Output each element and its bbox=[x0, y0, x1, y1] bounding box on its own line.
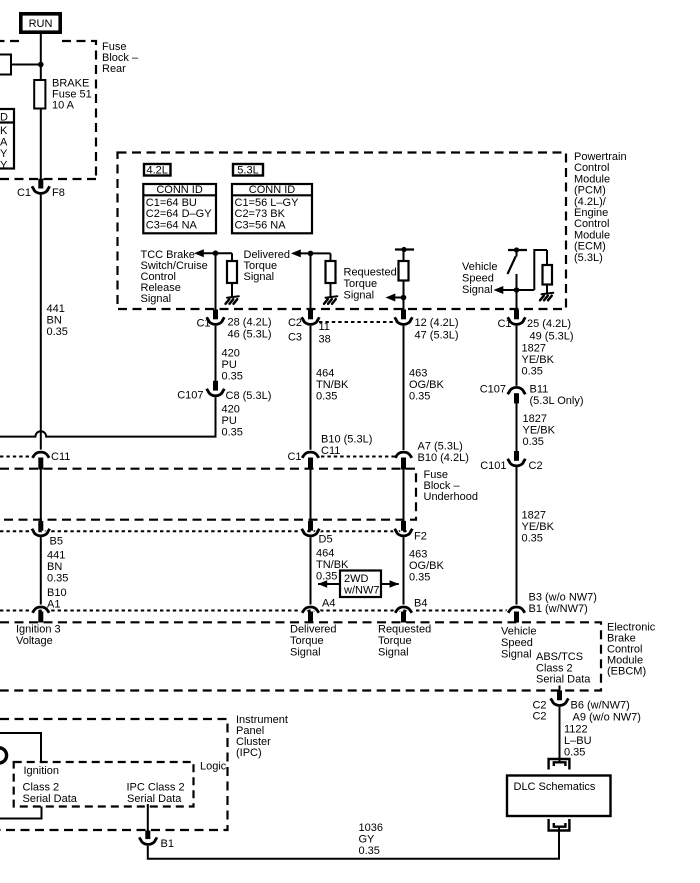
junction node bbox=[38, 62, 44, 68]
dotted connector face under fuse block bbox=[0, 530, 410, 532]
svg-text:Signal: Signal bbox=[501, 649, 532, 661]
svg-text:C3=64 NA: C3=64 NA bbox=[146, 220, 198, 232]
svg-text:C8 (5.3L): C8 (5.3L) bbox=[226, 390, 272, 402]
label 1122 L-BU 0.35 bbox=[564, 723, 592, 758]
wire 463 lower bbox=[403, 537, 405, 605]
svg-text:Voltage: Voltage bbox=[16, 635, 53, 647]
wire 1827 mid bbox=[516, 403, 518, 452]
ignition feed wire into logic bbox=[0, 733, 41, 762]
svg-text:C2: C2 bbox=[532, 699, 546, 711]
svg-text:C1: C1 bbox=[287, 451, 301, 463]
svg-text:Torque: Torque bbox=[344, 278, 378, 290]
svg-text:463: 463 bbox=[409, 549, 427, 561]
branch up to resistor VSS bbox=[534, 250, 547, 290]
svg-text:C2: C2 bbox=[532, 711, 546, 723]
PCM/ECM boundary (dashed) bbox=[118, 153, 567, 310]
wire bracket to junction bbox=[11, 64, 41, 66]
svg-text:w/NW7: w/NW7 bbox=[343, 585, 379, 597]
svg-text:B3 (w/o NW7): B3 (w/o NW7) bbox=[529, 592, 597, 604]
wire below switch bbox=[516, 274, 518, 310]
delivered torque label (top) bbox=[244, 249, 290, 283]
svg-text:Signal: Signal bbox=[462, 284, 493, 296]
svg-text:BN: BN bbox=[47, 315, 62, 327]
svg-text:OG/BK: OG/BK bbox=[409, 379, 445, 391]
ground VSS resistor bbox=[540, 293, 553, 301]
svg-text:1122: 1122 bbox=[564, 723, 588, 735]
svg-text:YE/BK: YE/BK bbox=[522, 521, 555, 533]
wire 420 PU down and left to brake switch (off page) with hop over 441 bbox=[0, 397, 216, 436]
wire from RUN into fuse block bbox=[40, 32, 42, 80]
requested torque arrow bbox=[386, 294, 396, 302]
fuse block rear label bbox=[102, 41, 139, 75]
svg-text:C1=64 BU: C1=64 BU bbox=[146, 197, 197, 209]
svg-text:1827: 1827 bbox=[523, 413, 547, 425]
wire TCC column bbox=[215, 253, 217, 310]
wire label 441 BN 0.35 bbox=[47, 303, 68, 338]
svg-text:C1: C1 bbox=[497, 318, 511, 330]
4.2L tag box bbox=[144, 164, 171, 177]
connector B3/B1 (VSS into EBCM) bbox=[508, 592, 597, 623]
connector C1 pin F8 bbox=[17, 179, 65, 199]
run indicator box RUN bbox=[21, 14, 60, 32]
svg-text:420: 420 bbox=[222, 348, 240, 360]
svg-text:Powertrain: Powertrain bbox=[574, 151, 627, 163]
svg-text:0.35: 0.35 bbox=[222, 427, 243, 439]
svg-text:Signal: Signal bbox=[141, 293, 172, 305]
svg-text:5.3L: 5.3L bbox=[237, 165, 258, 177]
svg-text:YE/BK: YE/BK bbox=[522, 354, 555, 366]
svg-text:ABS/TCS: ABS/TCS bbox=[536, 651, 583, 663]
switch blade VSS bbox=[508, 250, 517, 274]
wires through underhood fuse block bbox=[41, 470, 404, 522]
connector pin B1 bbox=[139, 831, 174, 851]
svg-text:RUN: RUN bbox=[29, 18, 53, 30]
node requested bbox=[401, 295, 407, 301]
class 2 serial data exit wire bbox=[0, 807, 42, 819]
svg-text:Ignition 3: Ignition 3 bbox=[16, 624, 61, 636]
svg-text:28 (4.2L): 28 (4.2L) bbox=[228, 317, 272, 329]
svg-text:Y: Y bbox=[0, 148, 8, 160]
svg-text:Torque: Torque bbox=[290, 635, 324, 647]
svg-text:441: 441 bbox=[47, 303, 65, 315]
wire fuse to C1/F8 bbox=[40, 109, 42, 180]
svg-text:C2=64 D–GY: C2=64 D–GY bbox=[146, 208, 212, 220]
svg-text:Class 2: Class 2 bbox=[536, 662, 573, 674]
svg-text:BN: BN bbox=[47, 561, 62, 573]
label 1827 YE/BK 0.35 lower bbox=[522, 510, 555, 545]
label 441 BN 0.35 lower bbox=[47, 550, 68, 585]
connector C1 pin 28/46 (TCC) bbox=[196, 310, 271, 341]
svg-text:B1: B1 bbox=[161, 838, 174, 850]
connector B10/A1 (ignition 3 into EBCM) bbox=[33, 587, 67, 623]
DLC inline connector top bbox=[549, 759, 570, 770]
svg-text:C1: C1 bbox=[196, 318, 210, 330]
svg-text:K: K bbox=[0, 125, 8, 137]
svg-text:0.35: 0.35 bbox=[222, 371, 243, 383]
svg-text:Signal: Signal bbox=[344, 290, 375, 302]
wire 1827 YE/BK upper bbox=[516, 326, 518, 386]
svg-text:Underhood: Underhood bbox=[424, 491, 478, 503]
svg-text:(IPC): (IPC) bbox=[236, 747, 262, 759]
svg-text:0.35: 0.35 bbox=[522, 533, 543, 545]
label 420 PU 0.35 lower bbox=[222, 404, 243, 439]
svg-text:464: 464 bbox=[316, 368, 334, 380]
EBCM label bbox=[607, 622, 656, 678]
svg-text:TN/BK: TN/BK bbox=[316, 559, 349, 571]
dotted link C2 to C3 connector row bbox=[319, 321, 396, 323]
5.3L tag box bbox=[233, 164, 263, 177]
svg-text:B1 (w/NW7): B1 (w/NW7) bbox=[529, 603, 588, 615]
logic boundary (dashed) bbox=[14, 762, 194, 807]
svg-text:38: 38 bbox=[319, 334, 331, 346]
gauge fragment at left edge bbox=[0, 748, 7, 763]
svg-text:Serial Data: Serial Data bbox=[536, 674, 591, 686]
connector B5 bbox=[32, 521, 63, 548]
connector C2 pin B6/A9 bbox=[532, 691, 641, 724]
svg-text:C1=56 L–GY: C1=56 L–GY bbox=[235, 197, 300, 209]
fuse block rear boundary (dashed) bbox=[0, 41, 96, 179]
svg-text:CONN ID: CONN ID bbox=[249, 184, 296, 196]
svg-text:Signal: Signal bbox=[378, 647, 409, 659]
svg-text:Rear: Rear bbox=[102, 63, 126, 75]
resistor requested bbox=[399, 250, 409, 311]
fuse block underhood label bbox=[424, 469, 478, 503]
IPC boundary (dashed) bbox=[0, 719, 228, 830]
DLC inline connector bottom bbox=[549, 819, 570, 831]
svg-text:A9 (w/o NW7): A9 (w/o NW7) bbox=[573, 711, 641, 723]
svg-text:Requested: Requested bbox=[344, 267, 397, 279]
svg-text:(PCM): (PCM) bbox=[574, 185, 606, 197]
CONN ID table 5.3L bbox=[232, 184, 312, 234]
svg-text:B5: B5 bbox=[50, 536, 63, 548]
svg-text:Torque: Torque bbox=[378, 635, 412, 647]
wire serial data out of EBCM bbox=[559, 686, 561, 692]
svg-text:(5.3L Only): (5.3L Only) bbox=[530, 395, 584, 407]
svg-text:A4: A4 bbox=[322, 598, 335, 610]
svg-text:C101: C101 bbox=[480, 460, 506, 472]
vehicle speed label bbox=[462, 261, 497, 296]
svg-text:Ignition: Ignition bbox=[24, 765, 59, 777]
svg-text:0.35: 0.35 bbox=[359, 845, 380, 857]
svg-text:Serial Data: Serial Data bbox=[127, 793, 182, 805]
dotted connector face left of C11 bbox=[0, 456, 33, 458]
wire delivered column bbox=[310, 253, 312, 310]
connector C101 pin C2 bbox=[480, 451, 542, 472]
svg-text:B10 (4.2L): B10 (4.2L) bbox=[418, 452, 469, 464]
requested torque label bbox=[344, 267, 397, 302]
svg-text:Y: Y bbox=[0, 160, 8, 172]
dotted connector face EBCM top row bbox=[0, 610, 509, 612]
svg-text:C1: C1 bbox=[17, 187, 31, 199]
label 420 PU 0.35 upper bbox=[222, 348, 243, 383]
svg-text:Vehicle: Vehicle bbox=[501, 626, 536, 638]
wire arrow to requested column bbox=[394, 297, 404, 299]
svg-text:C11: C11 bbox=[51, 451, 70, 463]
connector C1 pin 25/49 (VSS) bbox=[497, 310, 573, 343]
wire arrow to resistor branch 2 bbox=[299, 252, 331, 254]
svg-text:(4.2L)/: (4.2L)/ bbox=[574, 196, 607, 208]
svg-text:0.35: 0.35 bbox=[409, 572, 430, 584]
connector D5 bbox=[302, 521, 333, 546]
ground TCC resistor bbox=[226, 296, 239, 304]
fuse block underhood boundary (dashed) bbox=[0, 469, 416, 520]
svg-text:Signal: Signal bbox=[244, 271, 275, 283]
wire 1827 lower bbox=[516, 467, 518, 605]
svg-text:C107: C107 bbox=[480, 384, 506, 396]
wire arrow through node to resistor branch bbox=[502, 289, 535, 291]
svg-text:IPC Class 2: IPC Class 2 bbox=[127, 782, 185, 794]
svg-text:0.35: 0.35 bbox=[523, 436, 544, 448]
wire 463 OG/BK upper bbox=[403, 326, 405, 450]
svg-text:4.2L: 4.2L bbox=[146, 165, 167, 177]
connector F2 bbox=[395, 521, 427, 543]
svg-text:A1: A1 bbox=[47, 599, 60, 611]
svg-text:10 A: 10 A bbox=[52, 100, 75, 112]
wire 420 PU upper bbox=[215, 326, 217, 382]
connector C107 pin C8 (5.3L) bbox=[177, 381, 271, 402]
svg-text:F2: F2 bbox=[414, 531, 427, 543]
svg-text:(5.3L): (5.3L) bbox=[574, 252, 603, 264]
vehicle speed arrow bbox=[494, 286, 504, 294]
wire DLC to splice run bbox=[148, 827, 559, 859]
node vehicle speed bbox=[514, 287, 520, 293]
svg-text:0.35: 0.35 bbox=[564, 747, 585, 759]
connector C1 (464 into underhood fuse block) bbox=[287, 451, 318, 470]
svg-text:F8: F8 bbox=[52, 187, 65, 199]
svg-text:0.35: 0.35 bbox=[409, 391, 430, 403]
label 1036 GY 0.35 bbox=[359, 822, 383, 857]
svg-text:A7 (5.3L): A7 (5.3L) bbox=[418, 441, 463, 453]
svg-text:420: 420 bbox=[222, 404, 240, 416]
wire 441 lower bbox=[40, 537, 42, 605]
ABS/TCS class 2 serial data label bbox=[536, 651, 591, 686]
svg-text:PU: PU bbox=[222, 359, 237, 371]
internal rail requested bbox=[395, 247, 414, 252]
svg-text:OG/BK: OG/BK bbox=[409, 560, 445, 572]
svg-text:D5: D5 bbox=[319, 534, 333, 546]
label 463 OG/BK 0.35 upper bbox=[409, 368, 445, 403]
svg-text:C107: C107 bbox=[177, 390, 203, 402]
svg-text:Speed: Speed bbox=[501, 637, 533, 649]
svg-text:TN/BK: TN/BK bbox=[316, 379, 349, 391]
svg-text:1827: 1827 bbox=[522, 343, 546, 355]
label 1827 YE/BK 0.35 upper bbox=[522, 343, 555, 378]
svg-text:B4: B4 bbox=[414, 598, 427, 610]
svg-text:C2: C2 bbox=[529, 460, 543, 472]
IPC class 2 serial data label bbox=[127, 782, 185, 805]
class 2 serial data label (left) bbox=[23, 782, 78, 806]
svg-text:Speed: Speed bbox=[462, 273, 494, 285]
partial label box at left edge (D K A Y Y) bbox=[0, 109, 14, 172]
svg-text:L–BU: L–BU bbox=[564, 735, 592, 747]
svg-text:Control: Control bbox=[574, 162, 609, 174]
svg-text:C3: C3 bbox=[288, 332, 302, 344]
svg-text:B6 (w/NW7): B6 (w/NW7) bbox=[571, 699, 630, 711]
resistor pull-up TCC bbox=[227, 253, 237, 296]
svg-text:DLC Schematics: DLC Schematics bbox=[514, 781, 596, 793]
svg-text:B11: B11 bbox=[530, 384, 549, 396]
connector B4 (requested into EBCM) bbox=[395, 598, 427, 623]
connector C107 pin B11 (5.3L only) bbox=[480, 384, 584, 408]
svg-text:0.35: 0.35 bbox=[316, 391, 337, 403]
svg-text:1036: 1036 bbox=[359, 822, 383, 834]
TCC signal arrow bbox=[194, 249, 204, 257]
ground delivered resistor bbox=[324, 296, 337, 304]
svg-text:Control: Control bbox=[574, 218, 609, 230]
node TCC branch bbox=[213, 250, 219, 256]
svg-text:Module: Module bbox=[574, 229, 610, 241]
wire 441 BN down left side bbox=[40, 195, 42, 450]
svg-text:12 (4.2L): 12 (4.2L) bbox=[415, 317, 459, 329]
EBCM input labels bbox=[16, 624, 61, 648]
svg-text:Requested: Requested bbox=[378, 624, 431, 636]
fuse BRAKE Fuse 51 10A symbol bbox=[34, 80, 45, 109]
connector C11 (441 into underhood fuse block) bbox=[33, 451, 71, 470]
IPC label bbox=[236, 714, 288, 759]
svg-text:CONN ID: CONN ID bbox=[156, 184, 203, 196]
svg-text:C3=56 NA: C3=56 NA bbox=[235, 220, 287, 232]
connector pin 12/47 (requested) bbox=[395, 310, 459, 342]
svg-text:PU: PU bbox=[222, 415, 237, 427]
label 1827 YE/BK 0.35 mid bbox=[523, 413, 556, 448]
connector C2/C3 pin 11/38 (delivered) bbox=[288, 310, 331, 346]
svg-text:Engine: Engine bbox=[574, 207, 608, 219]
delivered torque arrow bbox=[291, 249, 301, 257]
svg-text:A: A bbox=[0, 137, 8, 149]
PCM/ECM label bbox=[574, 151, 627, 264]
svg-text:464: 464 bbox=[316, 548, 334, 560]
svg-text:25 (4.2L): 25 (4.2L) bbox=[527, 318, 571, 330]
svg-text:47 (5.3L): 47 (5.3L) bbox=[415, 330, 459, 342]
DLC Schematics box bbox=[507, 776, 611, 817]
internal rail vehicle speed bbox=[508, 247, 527, 252]
svg-text:0.35: 0.35 bbox=[47, 573, 68, 585]
wire 1122 L-BU bbox=[559, 707, 561, 762]
label 463 OG/BK 0.35 lower bbox=[409, 549, 445, 584]
TCC brake switch signal label bbox=[141, 249, 208, 305]
svg-text:Logic: Logic bbox=[200, 761, 227, 773]
connector A4 (delivered into EBCM) bbox=[302, 598, 335, 623]
wire IPC serial data to B1 bbox=[147, 804, 149, 831]
label 464 TN/BK 0.35 lower bbox=[316, 548, 349, 583]
svg-text:0.35: 0.35 bbox=[47, 326, 68, 338]
EBCM boundary (dashed) bbox=[0, 622, 601, 690]
svg-text:Class 2: Class 2 bbox=[23, 782, 60, 794]
label 464 TN/BK 0.35 upper bbox=[316, 368, 349, 403]
partial component bracket at left edge bbox=[0, 55, 11, 75]
resistor pull-up delivered bbox=[326, 253, 336, 296]
2WD w/NW7 tag box with arrows bbox=[318, 571, 399, 598]
svg-text:C2: C2 bbox=[288, 317, 302, 329]
svg-text:Vehicle: Vehicle bbox=[462, 261, 497, 273]
svg-text:Serial Data: Serial Data bbox=[23, 793, 78, 805]
svg-text:B10: B10 bbox=[47, 587, 67, 599]
svg-text:46 (5.3L): 46 (5.3L) bbox=[228, 329, 272, 341]
CONN ID table 4.2L bbox=[143, 184, 216, 234]
svg-text:(ECM): (ECM) bbox=[574, 241, 606, 253]
resistor VSS bbox=[543, 250, 553, 293]
svg-text:YE/BK: YE/BK bbox=[523, 425, 556, 437]
wire arrow to resistor branch bbox=[202, 252, 232, 254]
svg-text:2WD: 2WD bbox=[344, 573, 369, 585]
svg-text:49 (5.3L): 49 (5.3L) bbox=[530, 331, 574, 343]
svg-text:Delivered: Delivered bbox=[290, 624, 336, 636]
svg-text:441: 441 bbox=[47, 550, 65, 562]
wire 464 TN/BK upper bbox=[310, 326, 312, 450]
svg-text:(EBCM): (EBCM) bbox=[607, 666, 646, 678]
dotted link C1 to A7 connector row bbox=[321, 456, 395, 458]
svg-text:GY: GY bbox=[359, 834, 376, 846]
wire 464 lower bbox=[310, 537, 312, 605]
svg-text:C11: C11 bbox=[321, 445, 340, 457]
svg-text:C2=73 BK: C2=73 BK bbox=[235, 208, 286, 220]
connector A7/B10 (463 into underhood fuse block) bbox=[395, 441, 469, 470]
label B10 (5.3L) / C11 bbox=[321, 434, 372, 458]
svg-text:463: 463 bbox=[409, 368, 427, 380]
svg-text:0.35: 0.35 bbox=[522, 366, 543, 378]
node delivered branch bbox=[308, 251, 314, 257]
svg-text:Signal: Signal bbox=[290, 647, 321, 659]
svg-text:Module: Module bbox=[574, 173, 610, 185]
svg-text:B10 (5.3L): B10 (5.3L) bbox=[321, 434, 372, 446]
fuse label bbox=[52, 78, 92, 112]
svg-text:D: D bbox=[0, 112, 8, 124]
svg-text:1827: 1827 bbox=[522, 510, 546, 522]
